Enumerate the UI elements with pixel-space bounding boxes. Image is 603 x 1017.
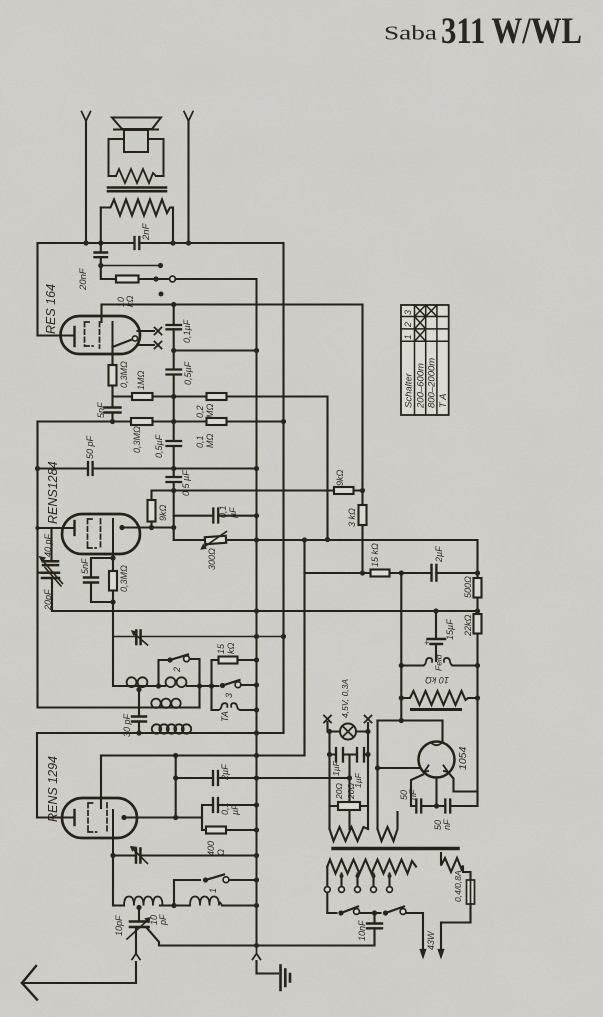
coil osc loop1 (127, 677, 137, 687)
node antenna tap (136, 905, 141, 910)
table row lines (401, 317, 449, 342)
svg-text:1054: 1054 (457, 746, 469, 770)
node y350 left (171, 348, 176, 353)
bar field resistor underline (412, 708, 461, 711)
svg-text:0,1: 0,1 (220, 802, 230, 815)
node x175 2uF (173, 775, 178, 780)
svg-text:20nF: 20nF (78, 267, 89, 291)
svg-text:2: 2 (172, 667, 182, 673)
capacitor 20nF (95, 253, 108, 258)
svg-text:20Ω: 20Ω (334, 783, 344, 800)
table X row2 col2 (415, 317, 426, 329)
node x211 coil (209, 683, 214, 688)
wire sw3 to bus (241, 684, 257, 686)
svg-text:40 pF: 40 pF (43, 533, 53, 557)
svg-text:0,5µF: 0,5µF (183, 361, 193, 385)
svg-text:5nF: 5nF (96, 402, 106, 418)
tube RENS1284 envelope (62, 514, 140, 554)
transformer core lines (108, 188, 166, 192)
coil osc loop2 (138, 677, 148, 687)
tube RENS1294 top electrode (100, 756, 102, 809)
node 1uF left (327, 752, 332, 757)
tube RENS1284 grid2 dashed (100, 519, 102, 549)
tap socket 4 (387, 887, 393, 893)
tube RENS1294 cathode (73, 810, 75, 825)
node y755 x175 (173, 753, 178, 758)
capacitor 40pF trimmer (43, 561, 58, 565)
wire line y515 (174, 515, 257, 517)
capacitor 0,5uF a (167, 370, 182, 375)
node filament line (375, 765, 380, 770)
wire 2uF line (176, 777, 349, 779)
svg-text:2µF: 2µF (220, 764, 230, 781)
speaker LS voice coil (124, 130, 148, 152)
capacitor 50pF (88, 462, 93, 475)
node sw3 bus (254, 682, 259, 687)
node tap end (158, 263, 163, 268)
node y755 bus (254, 753, 259, 758)
svg-text:0,1: 0,1 (218, 505, 228, 518)
node tap 3 (372, 874, 376, 878)
tap socket 2 (355, 887, 361, 893)
svg-text:10 kΩ: 10 kΩ (425, 675, 449, 685)
tap lead 3 (372, 874, 374, 887)
capacitor 1uF a (336, 748, 343, 762)
svg-text:RES 164: RES 164 (44, 284, 58, 334)
node Feld left (399, 663, 404, 668)
wire left rail mid (38, 422, 200, 708)
ground connector break (253, 946, 261, 960)
node A3 (170, 240, 175, 245)
wire x175 vertical (175, 756, 177, 818)
node ant coil bus (254, 903, 259, 908)
wire 30pF chain (138, 690, 140, 734)
svg-text:nF: nF (442, 819, 452, 830)
wire cathode lead tube2 (38, 527, 74, 529)
wire lamp block right vertical (367, 732, 369, 830)
wire grid line y304 (102, 305, 363, 491)
coil osc feedback loop1 (152, 724, 161, 733)
node y490 chain (171, 488, 176, 493)
wire vRight mid (476, 598, 478, 615)
wire vRight lower (476, 634, 478, 807)
node tap 1 (340, 874, 344, 878)
arrow 40pF wiper (43, 561, 63, 584)
resistor 400 Ohm (206, 827, 226, 834)
capacitor 20pF trimmer (42, 573, 59, 578)
wire primary left lead (326, 867, 328, 914)
wire ground lead (257, 961, 279, 974)
svg-text:15µF: 15µF (445, 619, 455, 640)
wire 1054 bottom stub (435, 778, 437, 807)
coil osc feedback loop3 (167, 724, 176, 733)
node screen 9k (149, 525, 154, 530)
node tap 4 (388, 874, 392, 878)
resistor 20 Ohm (338, 802, 360, 810)
tube RES164 cathode (73, 327, 75, 346)
tap lead 2 (356, 874, 358, 887)
arrow 20pF wiper (45, 568, 61, 587)
tap socket 0 (324, 887, 330, 893)
coil antenna2 loop2 (161, 699, 170, 708)
node y636 bus (254, 634, 259, 639)
node trimmer line bus (254, 853, 259, 858)
wire x401 vertical (400, 573, 402, 720)
contact Feld right hook (444, 658, 454, 666)
wire line y468 (38, 467, 257, 469)
wire tap line y265 (101, 265, 161, 267)
node A1 (83, 240, 88, 245)
wire sw1 branch (174, 880, 257, 906)
resistor speaker winding zigzag (116, 169, 156, 183)
switch 1 pivot (203, 877, 208, 882)
switch mains2 contact (400, 909, 406, 915)
winding rect filament zigzag (378, 812, 398, 841)
node y611 bus (254, 608, 259, 613)
svg-text:1µF: 1µF (331, 760, 341, 776)
arrow mains left (420, 946, 425, 958)
switch mains1 lever (341, 907, 358, 914)
capacitor 2uF right (432, 565, 437, 581)
tube RES164 anode (112, 322, 114, 348)
tube RES164 grid2 dashed (99, 322, 101, 348)
tube RENS1294 bottom electrode (112, 810, 114, 856)
svg-text:500Ω: 500Ω (463, 576, 473, 598)
heater terminal x1 (155, 328, 162, 335)
wire 3k vertical (361, 491, 363, 574)
wire 10nF vertical (373, 913, 375, 946)
node floating dot (159, 292, 164, 297)
resistor 10 kOhm (116, 276, 139, 283)
svg-text:400: 400 (206, 841, 216, 856)
wire line y611 (88, 610, 478, 612)
fuse 0,4/0,8A (467, 880, 475, 904)
switch 2 branch (159, 659, 200, 686)
arrow mains right (438, 946, 443, 958)
tube 1054 envelope (419, 742, 455, 778)
node lamp right (365, 729, 370, 734)
wire lamp line (328, 722, 369, 732)
node y540 avc (302, 537, 307, 542)
wire grid line y755 (101, 540, 305, 756)
svg-text:2: 2 (403, 322, 413, 328)
wire resistor to 5nF (111, 386, 113, 422)
switch mains2 pivot (383, 910, 388, 915)
svg-text:1MΩ: 1MΩ (136, 370, 146, 390)
node x477 zigzag (475, 695, 480, 700)
tube RENS1294 grid2 dashed (106, 803, 108, 833)
tube RES164 grid dashed (85, 322, 94, 346)
svg-text:1: 1 (208, 888, 218, 893)
table Schalter frame (401, 305, 449, 415)
wire 5nF bracket (91, 558, 113, 602)
capacitor 15uF electrolytic (428, 639, 446, 644)
wire screen lead (122, 526, 174, 528)
wire trimmer ant line (113, 854, 257, 856)
lamp dial cross (342, 726, 353, 737)
tap lead 4 (388, 874, 390, 887)
switch 2 lever (170, 655, 188, 661)
resistor 10kOhm field zigzag (401, 691, 477, 705)
tube RENS1294 envelope (62, 798, 137, 838)
table X row3 col2 (415, 305, 426, 317)
svg-text:4,5V, 0,3A: 4,5V, 0,3A (340, 679, 350, 718)
wire mains switch line (327, 913, 423, 948)
wire B+ jog to 1054 (378, 721, 443, 743)
arrow trimmer ant wiper (134, 850, 148, 864)
tube RENS1284 screen node (119, 525, 124, 530)
tube 1054 anode left (424, 766, 429, 773)
svg-text:2nF: 2nF (141, 222, 152, 241)
svg-text:RENS1284: RENS1284 (46, 461, 60, 524)
svg-text:9kΩ: 9kΩ (335, 469, 345, 486)
wire lamp block left vertical (328, 732, 330, 830)
capacitor 2uF (213, 771, 218, 785)
svg-text:15 kΩ: 15 kΩ (370, 543, 380, 567)
svg-text:Saba: Saba (384, 23, 437, 45)
resistor 15kOhm right (371, 570, 390, 577)
wire 9k bottom lead (150, 522, 152, 528)
table X row3 col3 (426, 305, 437, 317)
svg-text:µF: µF (230, 804, 240, 815)
node 1uF right (365, 752, 370, 757)
lamp dial circle (340, 724, 356, 740)
svg-text:20Ω: 20Ω (346, 783, 356, 800)
resistor 1MOhm (132, 393, 153, 400)
wire anode to resistor (111, 348, 113, 365)
svg-text:Feld: Feld (434, 654, 444, 671)
winding heater1 zigzag (330, 827, 369, 841)
node y421 ground rail (281, 419, 286, 424)
wire TA line (212, 686, 257, 710)
node 20nF branch (98, 263, 103, 268)
capacitor 0,1uF screen (213, 509, 218, 523)
wire 40pF top lead (50, 528, 52, 561)
switch 1 contact (223, 877, 229, 883)
heater terminal x3 (324, 716, 331, 723)
capacitor 0,1uF anode bypass (167, 325, 182, 329)
terminal fork right speaker (184, 112, 193, 122)
svg-text:nF: nF (408, 789, 418, 800)
capacitor 10nF (367, 924, 382, 929)
node y733 bus (254, 730, 259, 735)
node switch feed (153, 276, 158, 281)
node 5nF bottom (110, 419, 115, 424)
wire 20nF to junction (101, 243, 116, 279)
wire top bus y243 (38, 243, 284, 733)
capacitor 2nF (135, 237, 140, 249)
coil osc feedback loop2 (159, 724, 168, 733)
wire speaker left lead (85, 121, 87, 243)
heater terminal x2 (155, 342, 162, 349)
node 10nF junction (372, 910, 377, 915)
svg-text:MΩ: MΩ (205, 404, 215, 418)
wire line y573 (305, 572, 478, 574)
node y515 bus (254, 513, 259, 518)
capacitor 50nF b (445, 800, 450, 813)
winding primary zigzag (327, 860, 416, 874)
capacitor 0,1uF detector (213, 798, 218, 812)
svg-text:3 kΩ: 3 kΩ (347, 508, 357, 527)
svg-text:µF: µF (228, 507, 238, 518)
wire 1054 right lead (450, 775, 478, 792)
capacitor trimmer osc (136, 631, 140, 645)
node x199 coil (197, 683, 202, 688)
resistor 500 Ohm (474, 578, 482, 598)
capacitor 10pF trimmer (130, 922, 149, 928)
wire anode lead tube3 (124, 816, 202, 818)
coil osc loop3 (166, 677, 176, 687)
node y573 if (360, 570, 365, 575)
node A2 (98, 240, 103, 245)
table X row1 col2 (415, 329, 426, 341)
wire grid entry tube1 (100, 305, 102, 323)
node Feld right (475, 663, 480, 668)
table column lines (415, 305, 437, 415)
node screen chain (171, 525, 176, 530)
node x175 anode (173, 815, 178, 820)
wire anode RC bracket (202, 805, 257, 830)
node y421 cap chain (171, 419, 176, 424)
svg-text:0,2: 0,2 (195, 405, 205, 418)
wire contact to bus corner (175, 279, 256, 946)
svg-text:0,3MΩ: 0,3MΩ (119, 565, 129, 592)
node 400 bus (254, 827, 259, 832)
wire line y540 (174, 540, 478, 578)
coil antenna1 loops (124, 897, 163, 906)
resistor output zigzag (101, 200, 173, 216)
contact open circle (170, 276, 176, 282)
node hum mid (347, 775, 352, 780)
tube RENS1284 anode (112, 519, 114, 558)
resistor 0,3MOhm vertical (109, 365, 117, 386)
node y468 chain (171, 466, 176, 471)
node y468 rail (35, 466, 40, 471)
switch 2 pivot (167, 657, 172, 662)
svg-text:+: + (424, 638, 429, 648)
arrow 300 Ohm wiper (204, 532, 227, 548)
switch mains2 lever (386, 907, 405, 914)
svg-text:43W: 43W (426, 930, 436, 950)
capacitor 50nF a (416, 800, 421, 813)
node 5nF top (110, 555, 115, 560)
svg-text:10pF: 10pF (114, 915, 124, 936)
winding pilot zigzag (441, 853, 471, 880)
wire bottom bus (159, 944, 375, 946)
wire line y350 (174, 349, 257, 351)
node sw1 bus (254, 877, 259, 882)
wire line y421 (38, 420, 284, 422)
svg-text:0,3MΩ: 0,3MΩ (132, 426, 142, 453)
svg-text:300Ω: 300Ω (207, 548, 217, 570)
wire trimmer line y636 (113, 636, 284, 638)
node x401 zigzag (399, 695, 404, 700)
node 30pF tap (136, 687, 141, 692)
wire filament line to 1054 (378, 767, 420, 769)
svg-text:RENS 1294: RENS 1294 (46, 756, 60, 822)
node y636 gnd rail (281, 634, 286, 639)
speaker LS cone (112, 118, 161, 130)
switch 1 lever (206, 875, 225, 881)
resistor 300 Ohm variable (205, 536, 226, 544)
heater terminal x4 (365, 716, 372, 723)
wire 20pF top to rail (38, 572, 43, 574)
tube RES164 filament circle (132, 336, 137, 341)
node 2uF bus (254, 775, 259, 780)
capacitor 1uF b (357, 748, 364, 762)
node sw1 vert (171, 903, 176, 908)
svg-text:Schalter: Schalter (404, 372, 415, 408)
wire coil line y686 right (187, 685, 219, 687)
svg-text:1: 1 (403, 334, 413, 339)
capacitor 5nF grid (84, 578, 98, 583)
capacitor 0,5uF c (167, 477, 182, 482)
node y573 right (475, 570, 480, 575)
wire coil line y686 left (125, 685, 165, 687)
resistor 3kOhm (359, 505, 367, 525)
node 5nF bottom (110, 599, 115, 604)
wire sw2 vert to coil2 (198, 686, 200, 708)
svg-text:0,5 µF: 0,5 µF (181, 470, 191, 496)
switch mains1 contact (354, 909, 360, 915)
wire Feld line (401, 664, 477, 666)
contact Feld left hook (423, 658, 433, 666)
wire filament feed vertical (376, 721, 378, 830)
node 15k bus (254, 657, 259, 662)
antenna connector break (132, 954, 140, 960)
resistor 22kOhm (474, 614, 482, 634)
coil antenna1b loops (190, 897, 222, 906)
node 50nF mid (434, 803, 439, 808)
node y396 (171, 394, 176, 399)
svg-text:0,4/0,8A: 0,4/0,8A (453, 870, 463, 902)
wire 1uF mid vertical (348, 755, 350, 830)
wire 10pF tap (138, 908, 140, 922)
svg-text:10nF: 10nF (357, 920, 367, 941)
wire heater lead 1 (138, 330, 155, 332)
node y573 x401 (399, 570, 404, 575)
switch mains1 pivot (338, 910, 343, 915)
wire 10k to contact (139, 278, 170, 280)
switch 2 contact (184, 656, 190, 662)
svg-text:0,1: 0,1 (195, 435, 205, 448)
svg-text:pF: pF (158, 914, 168, 926)
node trimmer line x113 (110, 853, 115, 858)
wire 10pF to bus start (146, 927, 159, 946)
svg-text:0,1µF: 0,1µF (182, 319, 192, 343)
svg-text:3: 3 (403, 310, 413, 315)
switch 3 pivot (220, 683, 225, 688)
wire 50nF line (411, 805, 478, 807)
resistor 0,3MOhm row (131, 418, 153, 425)
arrow 10pF wiper (127, 921, 147, 939)
coil osc feedback loop4 (174, 724, 183, 733)
node 0,1uF bus (254, 802, 259, 807)
coil antenna2 loop3 (171, 699, 180, 708)
svg-text:15: 15 (216, 643, 226, 654)
node TA bus (254, 707, 259, 712)
svg-text:800–2000m: 800–2000m (427, 358, 438, 408)
terminal fork left speaker (82, 112, 91, 122)
antenna symbol (22, 966, 37, 1000)
node grid line to cap chain (171, 302, 176, 307)
node y468 bus (254, 466, 259, 471)
contact TA right hook (231, 703, 240, 710)
node y490 if (360, 488, 365, 493)
node lamp left (327, 729, 332, 734)
node bottom bus main (254, 943, 259, 948)
arrow trimmer osc wiper (134, 633, 148, 645)
